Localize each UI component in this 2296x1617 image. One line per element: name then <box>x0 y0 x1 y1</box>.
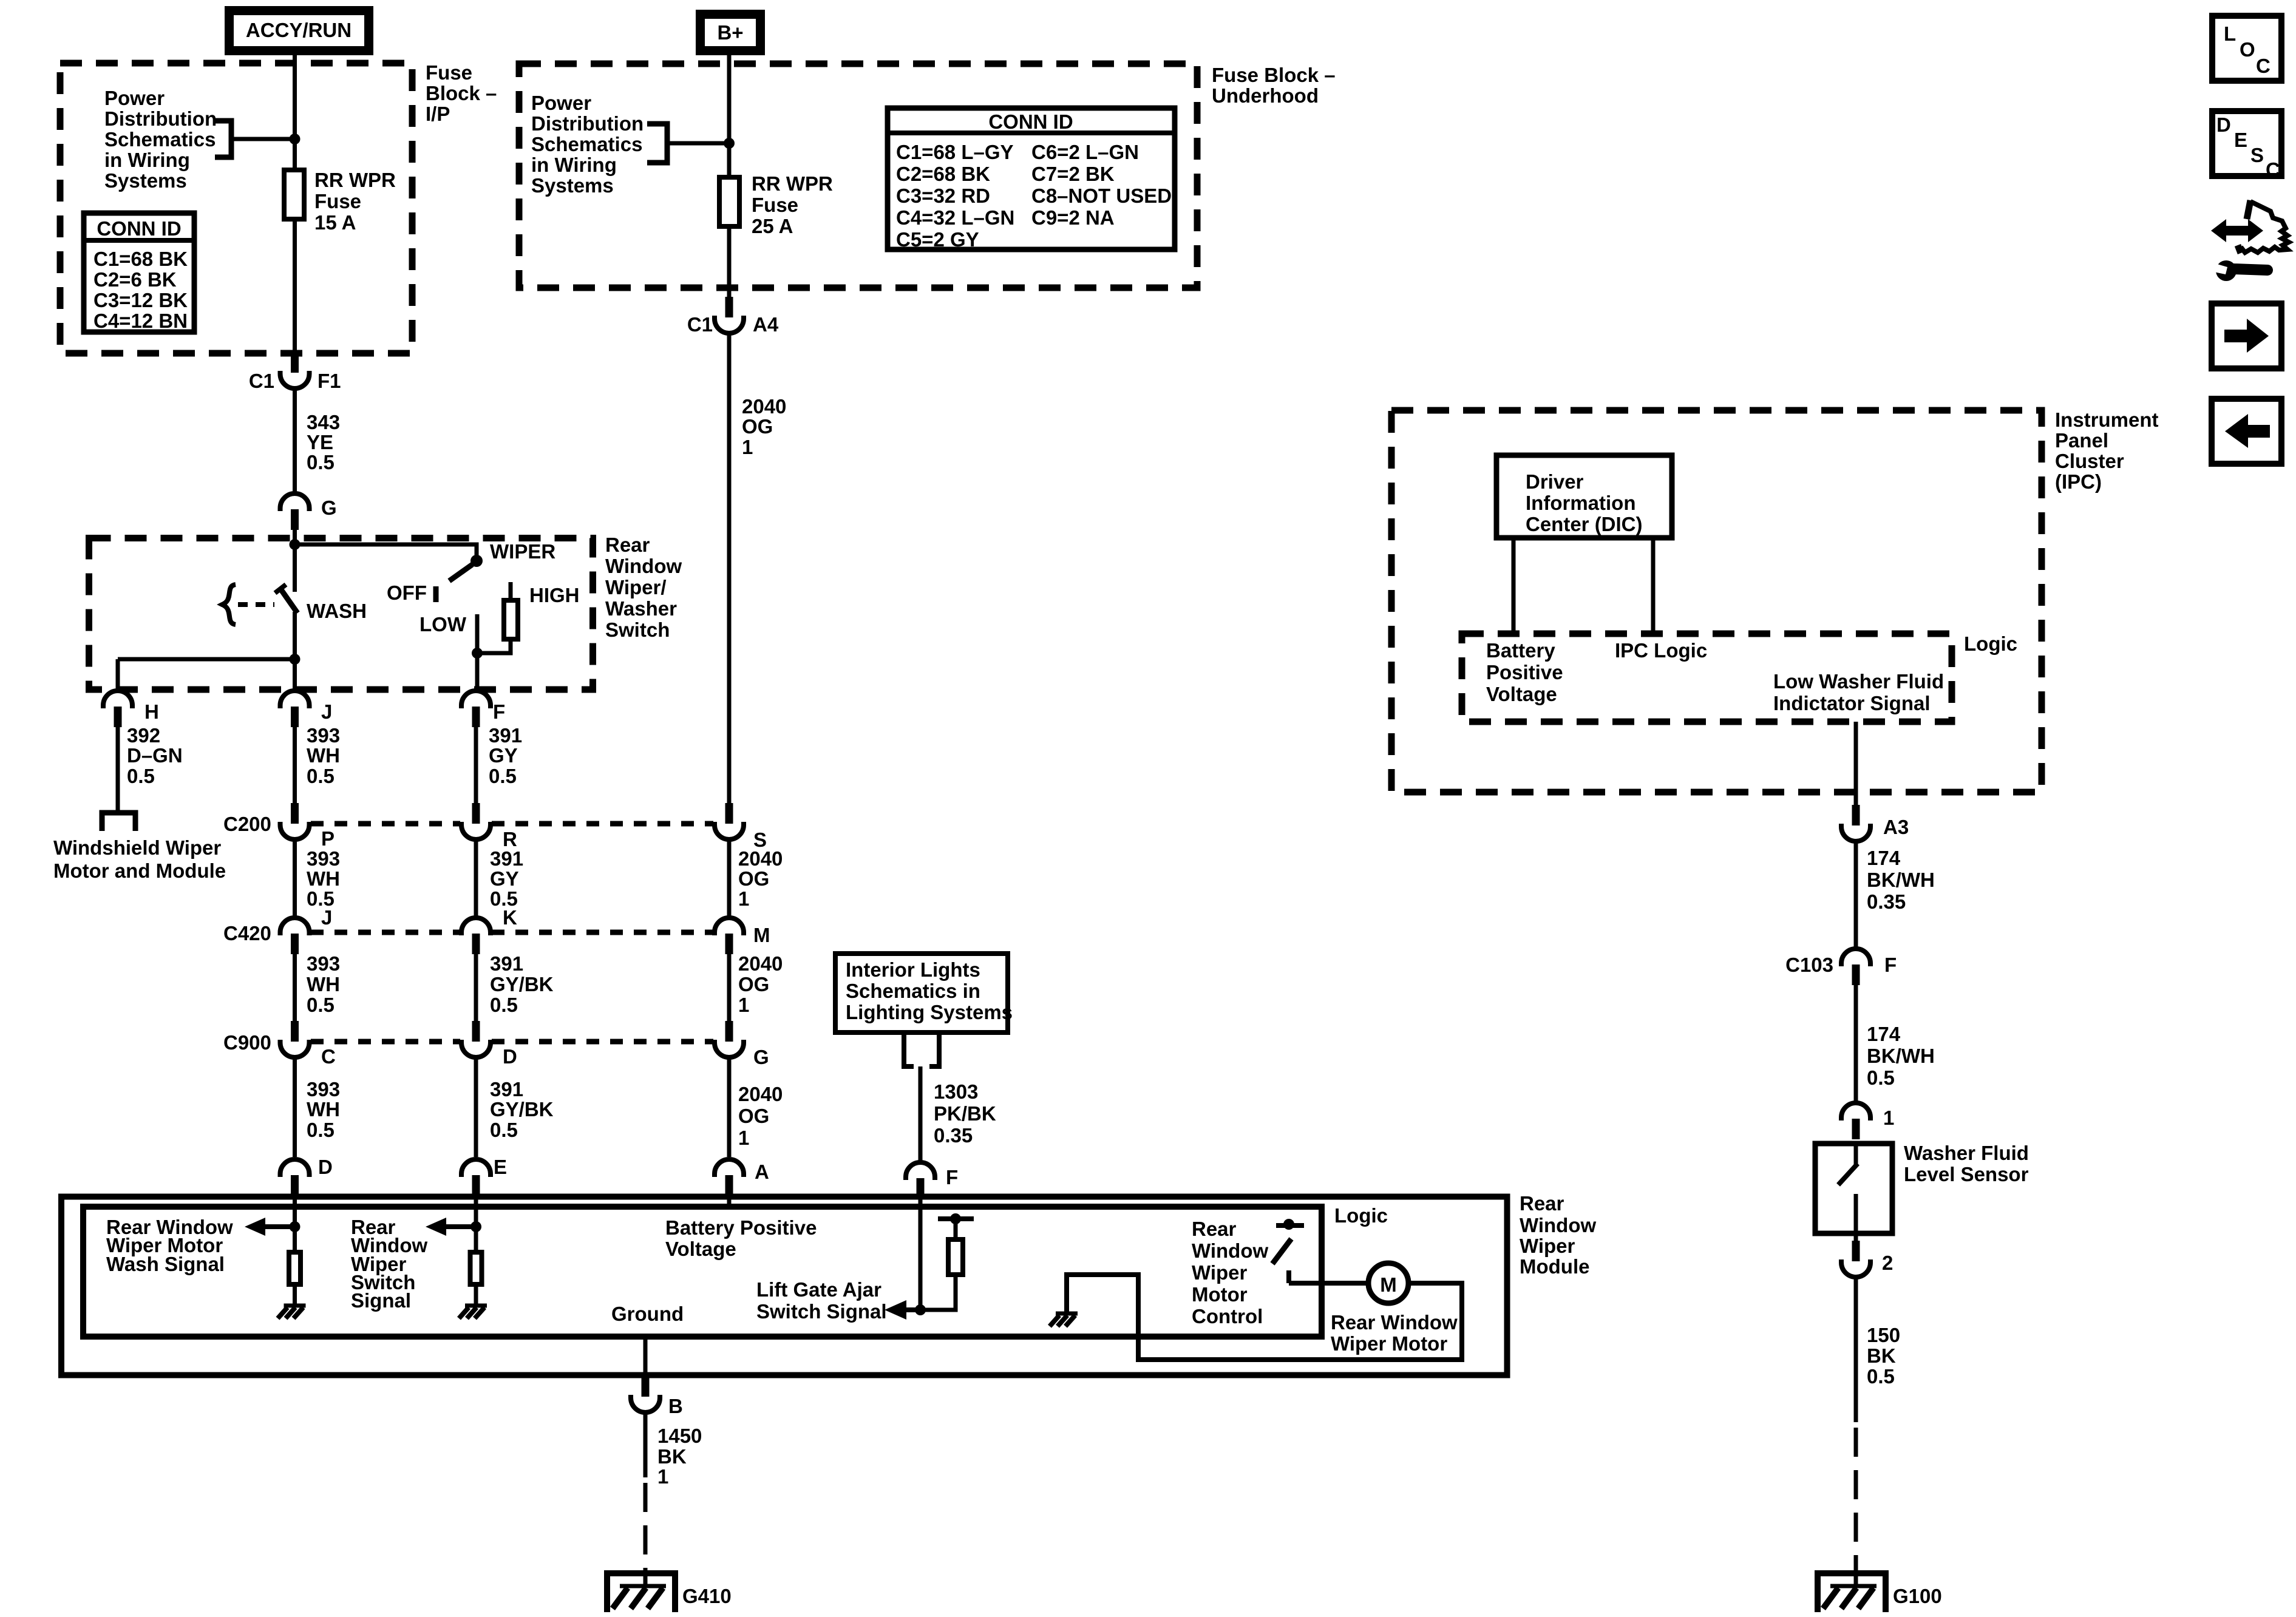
svg-text:L: L <box>2224 22 2236 45</box>
wire bracket to feed <box>231 137 295 141</box>
svg-text:Rear Window: Rear Window <box>1331 1311 1458 1334</box>
wire fuse to C1 connector <box>293 222 297 352</box>
label RR WPR Fuse 15 A <box>314 169 396 234</box>
svg-text:G100: G100 <box>1893 1585 1942 1607</box>
svg-text:D–GN: D–GN <box>127 744 183 767</box>
wire resistor to ground <box>293 1284 297 1304</box>
svg-text:0.5: 0.5 <box>489 765 517 787</box>
svg-text:BK: BK <box>1867 1344 1896 1367</box>
fuse RR WPR 15 A <box>284 170 304 219</box>
connector C200 pin R <box>461 803 491 839</box>
svg-text:Voltage: Voltage <box>665 1238 736 1260</box>
svg-text:0.35: 0.35 <box>1867 890 1906 913</box>
svg-text:Instrument: Instrument <box>2055 408 2159 431</box>
ground G410 <box>607 1573 675 1612</box>
wire HIGH resistor to LOW node <box>477 642 511 653</box>
wire G to switch box <box>293 529 297 544</box>
label wire 1303 PK/BK 0.35 <box>934 1080 996 1147</box>
wire resistor top <box>954 1220 958 1239</box>
icon DESC box <box>2212 111 2281 181</box>
wire module pin E input <box>474 1196 478 1227</box>
wire ACCY/RUN feed down <box>293 55 297 168</box>
wire dashed to G410 <box>644 1483 648 1573</box>
svg-text:Washer: Washer <box>605 597 677 620</box>
svg-text:Indictator Signal: Indictator Signal <box>1773 692 1931 714</box>
motor M circle <box>1368 1263 1408 1303</box>
connector module pin F <box>906 1162 935 1199</box>
label Rear Window Wiper Motor Wash Signal <box>106 1216 233 1275</box>
wire DIC to battery positive <box>1512 538 1516 634</box>
svg-text:343: 343 <box>307 411 340 433</box>
svg-text:C5=2 GY: C5=2 GY <box>896 228 979 251</box>
svg-text:393: 393 <box>307 724 340 747</box>
label Power Distribution Schematics in Wiring Systems (I/P) <box>104 87 217 192</box>
wire wash output to H branch <box>118 657 295 662</box>
svg-text:0.5: 0.5 <box>490 1119 518 1141</box>
label Battery Positive Voltage <box>1486 639 1563 705</box>
svg-text:393: 393 <box>307 952 340 975</box>
svg-text:Level Sensor: Level Sensor <box>1904 1163 2029 1185</box>
rear window wiper module inner box <box>83 1207 1322 1337</box>
wire module pin F input <box>919 1198 923 1310</box>
label wire 2040 OG 1 <box>738 1083 783 1149</box>
label Lift Gate Ajar Switch Signal <box>756 1278 887 1323</box>
svg-text:Interior Lights: Interior Lights <box>846 958 980 981</box>
icon adjust double arrow <box>2211 219 2263 242</box>
svg-text:E: E <box>494 1156 507 1178</box>
terminal bar lift gate pullup <box>938 1216 974 1221</box>
svg-text:CONN ID: CONN ID <box>988 110 1073 133</box>
svg-text:in Wiring: in Wiring <box>104 149 190 171</box>
wire 393 WH below C420 <box>293 954 297 1021</box>
svg-text:E: E <box>2234 129 2247 151</box>
svg-text:WH: WH <box>307 1098 340 1120</box>
CONN ID table (I/P) <box>81 213 197 332</box>
connector C103 pin F <box>1841 949 1870 985</box>
connector C200 pin P <box>280 803 310 839</box>
power feed box ACCY/RUN <box>229 11 369 51</box>
node WIPER <box>470 555 483 567</box>
svg-text:Window: Window <box>1192 1239 1268 1262</box>
label wire 391 GY/BK 0.5 <box>490 1078 554 1141</box>
svg-text:Logic: Logic <box>1334 1204 1388 1227</box>
contact OFF tick <box>433 586 439 602</box>
svg-text:Module: Module <box>1520 1255 1589 1278</box>
svg-text:G: G <box>321 497 337 519</box>
svg-text:Rear: Rear <box>605 534 650 556</box>
resistor switch pulldown <box>470 1252 482 1284</box>
svg-text:1: 1 <box>738 994 749 1016</box>
wire wiper output down <box>475 653 480 691</box>
wire 393 WH below C900 <box>293 1057 297 1157</box>
junction dot wash output <box>290 654 301 665</box>
junction dot pullup top <box>950 1213 961 1224</box>
wire fuse 25A to C1 connector <box>727 226 732 297</box>
label wire 391 GY 0.5 <box>490 847 523 910</box>
svg-text:Wash Signal: Wash Signal <box>106 1253 225 1275</box>
label wire 393 WH 0.5 <box>307 952 340 1016</box>
svg-text:Signal: Signal <box>351 1289 411 1312</box>
svg-text:F: F <box>1884 954 1897 976</box>
wire module pin A input <box>727 1196 732 1208</box>
connector module pin A <box>715 1159 744 1196</box>
svg-text:I/P: I/P <box>426 103 450 125</box>
svg-text:B: B <box>668 1395 683 1417</box>
connector C420 pin K <box>461 918 491 954</box>
svg-text:C4=32 L–GN: C4=32 L–GN <box>896 206 1014 229</box>
svg-text:0.5: 0.5 <box>127 765 155 787</box>
svg-text:Rear: Rear <box>1192 1218 1237 1240</box>
ground G100 <box>1818 1573 1886 1612</box>
svg-text:ACCY/RUN: ACCY/RUN <box>246 19 352 41</box>
svg-text:C4=12 BN: C4=12 BN <box>93 310 188 332</box>
connector C420 pin M <box>715 918 744 954</box>
connector G (switch) <box>280 493 310 530</box>
label wire 174 BK/WH 0.5 <box>1867 1023 1935 1089</box>
brace cable symbol <box>222 585 236 625</box>
svg-text:0.35: 0.35 <box>934 1124 973 1147</box>
resistor lift gate pullup <box>948 1239 963 1275</box>
svg-text:PK/BK: PK/BK <box>934 1102 996 1125</box>
svg-text:1: 1 <box>738 1127 749 1149</box>
svg-text:C7=2 BK: C7=2 BK <box>1031 163 1115 185</box>
connector C1 pin A4 <box>715 297 744 333</box>
wire H branch down <box>116 659 120 691</box>
svg-text:G410: G410 <box>682 1585 732 1607</box>
wire 393 segment <box>293 726 297 803</box>
svg-text:Fuse Block –: Fuse Block – <box>1212 64 1336 86</box>
svg-text:Distribution: Distribution <box>104 107 217 130</box>
svg-text:Rear: Rear <box>1520 1192 1564 1215</box>
svg-text:Motor: Motor <box>1192 1283 1248 1306</box>
svg-text:Lift Gate Ajar: Lift Gate Ajar <box>756 1278 881 1301</box>
svg-text:C1=68 BK: C1=68 BK <box>93 248 188 270</box>
svg-text:C: C <box>321 1045 336 1068</box>
wire 392 segment <box>116 726 120 810</box>
svg-text:C1: C1 <box>687 313 713 336</box>
svg-text:RR WPR: RR WPR <box>752 172 833 195</box>
wire 391 GY/BK below C900 <box>474 1057 478 1157</box>
svg-text:1: 1 <box>738 887 749 910</box>
resistor HIGH <box>504 600 518 639</box>
label wire 392 D-GN 0.5 <box>127 724 183 787</box>
node rear wiper motor control <box>1283 1219 1294 1230</box>
connector C900 pin D <box>461 1021 491 1057</box>
svg-text:D: D <box>318 1156 333 1178</box>
svg-text:C1=68 L–GY: C1=68 L–GY <box>896 141 1014 163</box>
svg-text:391: 391 <box>490 847 523 870</box>
driver information center box <box>1496 455 1672 538</box>
svg-text:1: 1 <box>742 436 753 458</box>
svg-text:Power: Power <box>104 87 165 109</box>
arrow wash signal <box>245 1218 295 1236</box>
svg-text:CONN ID: CONN ID <box>97 217 181 240</box>
connector pin H <box>103 691 132 727</box>
wire wash switch common <box>293 544 297 592</box>
svg-text:WH: WH <box>307 744 340 767</box>
label wire 343 YE 0.5 <box>307 411 340 473</box>
svg-text:A: A <box>755 1161 769 1183</box>
wire 2040 OG feed <box>727 333 732 803</box>
connector C200 pin S <box>715 803 744 839</box>
junction dot on ACCY feed <box>290 134 301 144</box>
svg-text:0.5: 0.5 <box>1867 1365 1895 1388</box>
CONN ID table (underhood) <box>885 108 1177 251</box>
label Rear Window Wiper Module <box>1520 1192 1596 1278</box>
svg-text:Window: Window <box>1520 1214 1596 1236</box>
svg-text:C: C <box>2256 55 2271 77</box>
svg-text:C8–NOT USED: C8–NOT USED <box>1031 185 1172 207</box>
svg-text:M: M <box>753 924 770 946</box>
svg-text:1450: 1450 <box>657 1425 702 1447</box>
wire dashed to G100 <box>1854 1428 1858 1573</box>
svg-text:150: 150 <box>1867 1324 1900 1346</box>
wire 343 segment <box>293 388 297 493</box>
svg-text:Information: Information <box>1526 492 1635 514</box>
label wire 393 WH 0.5 <box>307 1078 340 1141</box>
svg-text:IPC Logic: IPC Logic <box>1615 639 1707 662</box>
svg-text:Positive: Positive <box>1486 661 1563 683</box>
wire 391 segment <box>474 726 478 803</box>
wire resistor to ground <box>474 1284 478 1304</box>
label Instrument Panel Cluster (IPC) <box>2055 408 2159 493</box>
junction dot wiper output <box>472 648 483 659</box>
svg-text:2040: 2040 <box>742 395 786 418</box>
connector module pin E <box>461 1159 491 1196</box>
svg-text:391: 391 <box>490 1078 523 1100</box>
contact LOW wire <box>475 614 480 653</box>
fuse block underhood dashed box <box>519 64 1197 288</box>
label wire 393 WH 0.5 <box>307 724 340 787</box>
svg-text:B+: B+ <box>717 21 743 44</box>
svg-text:Fuse: Fuse <box>752 194 798 216</box>
wire contact to motor <box>1289 1281 1368 1286</box>
svg-text:P: P <box>321 827 335 850</box>
bracket to power distribution (underhood) <box>647 124 667 163</box>
logic dashed box <box>1462 634 1952 722</box>
svg-text:0.5: 0.5 <box>490 994 518 1016</box>
connector IPC pin A3 <box>1841 805 1870 841</box>
connector C900 pin G <box>715 1021 744 1057</box>
wire 174 lower segment <box>1854 984 1858 1103</box>
svg-text:Underhood: Underhood <box>1212 84 1319 107</box>
svg-text:K: K <box>503 906 517 929</box>
svg-text:Wiper/: Wiper/ <box>605 576 667 598</box>
label Washer Fluid Level Sensor <box>1904 1142 2029 1185</box>
svg-text:Wiper: Wiper <box>1520 1235 1575 1257</box>
svg-text:O: O <box>2240 38 2255 61</box>
label wire 2040 OG 1 <box>742 395 786 458</box>
svg-text:Panel: Panel <box>2055 429 2108 452</box>
label wire 2040 OG 1 <box>738 847 783 910</box>
label wire 391 GY/BK 0.5 <box>490 952 554 1016</box>
svg-text:391: 391 <box>490 952 523 975</box>
wire 2040 OG below C900 <box>727 1057 732 1157</box>
svg-text:A3: A3 <box>1883 816 1909 838</box>
wire lift gate to resistor <box>920 1275 956 1310</box>
svg-text:Fuse: Fuse <box>426 61 472 84</box>
svg-text:Wiper: Wiper <box>1192 1261 1248 1284</box>
svg-text:(IPC): (IPC) <box>2055 470 2102 493</box>
svg-text:15 A: 15 A <box>314 211 356 234</box>
svg-text:Switch Signal: Switch Signal <box>756 1300 887 1323</box>
svg-text:Schematics: Schematics <box>104 128 216 151</box>
svg-text:Systems: Systems <box>104 169 187 192</box>
svg-text:0.5: 0.5 <box>1867 1066 1895 1089</box>
connector C900 row dashes <box>311 1039 713 1045</box>
svg-text:C3=12 BK: C3=12 BK <box>93 289 188 311</box>
connector C1 pin F1 <box>280 352 310 388</box>
svg-text:J: J <box>321 700 332 723</box>
wire wash output down <box>293 659 297 691</box>
svg-text:1303: 1303 <box>934 1080 978 1103</box>
svg-text:C9=2 NA: C9=2 NA <box>1031 206 1115 229</box>
svg-text:F: F <box>493 700 505 723</box>
wash switch arm <box>275 585 297 613</box>
ground (motor) <box>1050 1314 1078 1326</box>
svg-text:Windshield Wiper: Windshield Wiper <box>53 836 221 859</box>
svg-text:OG: OG <box>738 867 769 890</box>
svg-text:Low Washer Fluid: Low Washer Fluid <box>1773 670 1944 693</box>
icon back arrow box <box>2212 399 2281 464</box>
label wire 391 GY 0.5 <box>489 724 522 787</box>
svg-text:C1: C1 <box>249 370 274 392</box>
svg-text:BK/WH: BK/WH <box>1867 1045 1935 1067</box>
svg-text:Systems: Systems <box>531 174 614 197</box>
label Rear Window Wiper/Washer Switch <box>605 534 682 641</box>
rear window wiper module outer box <box>61 1197 1507 1375</box>
label Power Distribution Schematics in Wiring Systems (underhood) <box>531 92 644 197</box>
svg-text:1: 1 <box>1883 1107 1894 1129</box>
wire module ground out <box>644 1337 648 1378</box>
ground (switch signal) <box>459 1306 487 1318</box>
svg-text:C200: C200 <box>223 813 271 835</box>
label RR WPR Fuse 25 A <box>752 172 833 237</box>
svg-text:Wiper Motor: Wiper Motor <box>1331 1332 1447 1355</box>
svg-text:in Wiring: in Wiring <box>531 154 617 176</box>
contact motor control <box>1286 1270 1291 1283</box>
connector module pin B <box>631 1376 660 1412</box>
svg-text:2040: 2040 <box>738 847 783 870</box>
svg-text:GY/BK: GY/BK <box>490 1098 554 1120</box>
svg-text:Cluster: Cluster <box>2055 450 2124 472</box>
fuse RR WPR 25 A <box>719 177 739 226</box>
resistor wash pulldown <box>289 1252 301 1284</box>
svg-text:Lighting Systems: Lighting Systems <box>846 1001 1013 1023</box>
svg-text:Battery: Battery <box>1486 639 1555 662</box>
wire 391 GY below C200 <box>474 839 478 918</box>
svg-text:GY: GY <box>490 867 519 890</box>
wire 2040 OG below C200 <box>727 839 732 918</box>
svg-text:Block –: Block – <box>426 82 497 104</box>
svg-text:C900: C900 <box>223 1031 271 1054</box>
washer fluid level sensor box <box>1815 1144 1892 1233</box>
svg-text:Schematics in: Schematics in <box>846 980 980 1002</box>
connector sensor pin 1 <box>1841 1103 1870 1139</box>
svg-text:Control: Control <box>1192 1305 1263 1327</box>
svg-text:HIGH: HIGH <box>529 584 580 606</box>
svg-text:BK: BK <box>657 1445 687 1468</box>
svg-text:C6=2 L–GN: C6=2 L–GN <box>1031 141 1139 163</box>
label wire 2040 OG 1 <box>738 952 783 1016</box>
dashed link brace to wash arm <box>238 602 274 607</box>
svg-text:C2=68 BK: C2=68 BK <box>896 163 990 185</box>
svg-text:2040: 2040 <box>738 1083 783 1105</box>
label wire 1450 BK 1 <box>657 1425 702 1488</box>
svg-text:0.5: 0.5 <box>307 765 335 787</box>
label Battery Positive Voltage <box>665 1216 817 1260</box>
svg-text:Fuse: Fuse <box>314 190 361 212</box>
switch arm motor control <box>1272 1239 1291 1264</box>
arrow switch signal <box>426 1218 476 1236</box>
svg-text:G: G <box>753 1046 769 1068</box>
svg-text:J: J <box>321 906 332 929</box>
wire motor loop <box>1067 1275 1462 1360</box>
rear window wiper/washer switch dashed box <box>89 538 593 690</box>
svg-text:GY: GY <box>489 744 518 767</box>
svg-text:393: 393 <box>307 1078 340 1100</box>
connector C420 row dashes <box>311 930 713 935</box>
svg-text:391: 391 <box>489 724 522 747</box>
svg-text:2: 2 <box>1882 1252 1893 1274</box>
label Rear Window Wiper Motor <box>1331 1311 1458 1355</box>
svg-text:C: C <box>2266 158 2280 181</box>
arrow lift gate ajar switch signal <box>885 1300 920 1320</box>
wire 174 segment <box>1854 841 1858 949</box>
svg-text:392: 392 <box>127 724 160 747</box>
svg-text:Motor and Module: Motor and Module <box>53 859 226 882</box>
wire 393 WH below C200 <box>293 839 297 918</box>
svg-text:1: 1 <box>657 1465 668 1488</box>
wire bracket to B+ feed <box>667 141 729 146</box>
svg-text:Driver: Driver <box>1526 470 1584 493</box>
svg-text:Distribution: Distribution <box>531 112 644 135</box>
icon part outline <box>2238 200 2289 253</box>
svg-text:D: D <box>503 1045 517 1068</box>
svg-text:WH: WH <box>307 867 340 890</box>
svg-text:OG: OG <box>738 1105 769 1127</box>
ground (wash signal) <box>278 1306 306 1318</box>
svg-text:Voltage: Voltage <box>1486 683 1557 705</box>
connector pin F <box>461 691 491 727</box>
icon wrench <box>2211 260 2267 281</box>
label Rear Window Wiper Motor Control <box>1192 1218 1268 1327</box>
svg-text:OG: OG <box>742 415 773 438</box>
svg-text:Washer Fluid: Washer Fluid <box>1904 1142 2029 1164</box>
bracket windshield wiper motor <box>102 813 135 831</box>
wire to wash pulldown resistor <box>293 1227 297 1252</box>
bracket to power distribution (I/P) <box>215 121 231 157</box>
svg-text:OFF: OFF <box>387 581 427 604</box>
fuse block I/P dashed box <box>60 63 412 353</box>
wire 391 GY/BK below C420 <box>474 954 478 1021</box>
svg-text:F: F <box>946 1166 958 1188</box>
svg-text:0.5: 0.5 <box>307 451 335 473</box>
label wire 150 BK 0.5 <box>1867 1324 1900 1388</box>
svg-text:Schematics: Schematics <box>531 133 642 155</box>
wire 150 segment <box>1854 1277 1858 1422</box>
instrument panel cluster dashed box <box>1391 410 2042 792</box>
wire DIC to IPC logic <box>1651 538 1656 634</box>
label Low Washer Fluid Indictator Signal <box>1773 670 1944 714</box>
power feed box B+ <box>701 15 761 51</box>
svg-text:25 A: 25 A <box>752 215 793 237</box>
svg-text:C3=32 RD: C3=32 RD <box>896 185 990 207</box>
svg-text:GY/BK: GY/BK <box>490 973 554 995</box>
wire wash arm down <box>293 612 297 659</box>
label Fuse Block - I/P <box>426 61 497 125</box>
wire 1450 segment <box>644 1412 648 1477</box>
